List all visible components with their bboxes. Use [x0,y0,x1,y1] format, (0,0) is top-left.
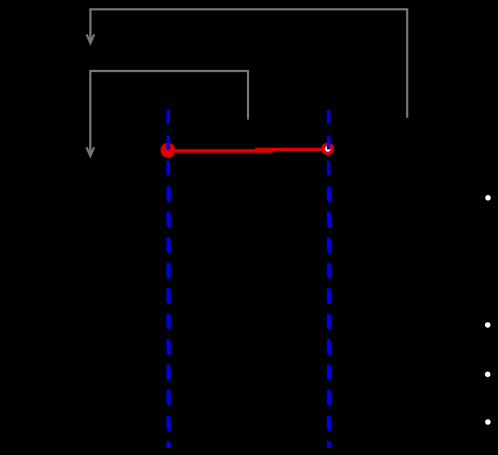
open endpoint marker [323,144,332,153]
bullet dot 2 [485,322,491,328]
dashed vertical line x=2 echo [328,185,331,448]
annotation arrow 1 (top bracket) [87,9,408,117]
red segment right part [255,148,328,151]
dashed vertical line x=2 [327,110,331,448]
red segment left part [168,149,273,152]
closed endpoint marker [161,143,176,158]
bullet dot 1 [485,195,491,201]
annotation arrow 2 (second bracket) [87,71,249,156]
bullet dot 3 [485,372,491,378]
dashed vertical line x=1 echo [167,185,170,448]
bullet dot 4 [485,419,491,425]
dashed vertical line x=1 [166,110,170,448]
